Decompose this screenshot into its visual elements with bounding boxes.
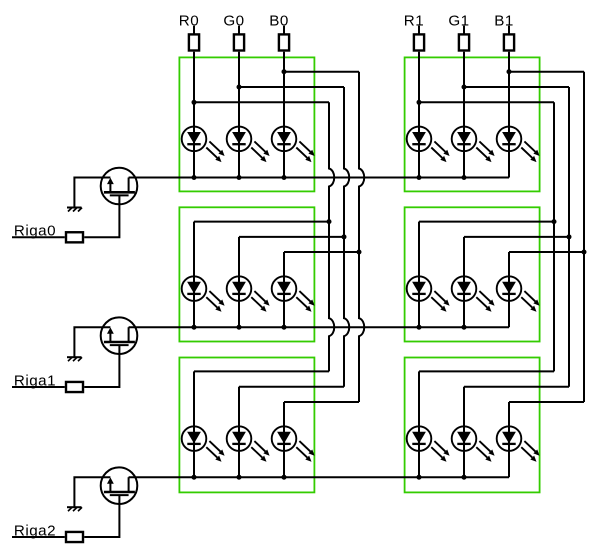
svg-text:B0: B0 — [269, 13, 289, 30]
LED B1 row0 — [497, 127, 540, 163]
wire B0 column middle block — [283, 252, 285, 327]
LED B1 row2 — [497, 426, 540, 461]
LED G0 row1 — [227, 276, 270, 311]
wire R0 junction to bus — [194, 101, 329, 103]
wire B0 column top block — [283, 52, 285, 178]
svg-text:G0: G0 — [223, 13, 244, 30]
wire R0 column bottom block — [193, 371, 195, 477]
node row1 G0 cathode — [237, 325, 242, 330]
LED block outline row2 right — [405, 358, 540, 493]
wire G1 junction to bus — [464, 86, 569, 88]
connector Riga2 — [66, 532, 83, 542]
svg-text:R0: R0 — [179, 13, 199, 30]
wire B0 feed middle block — [284, 251, 359, 253]
node G0 top junction — [237, 85, 242, 90]
wire G1 feed middle block — [464, 236, 569, 238]
transistor Q2 (row driver MOSFET) — [101, 317, 138, 354]
node B1 top junction — [507, 69, 512, 74]
wire Q3 source to ground — [74, 477, 110, 507]
wire G0 junction to bus — [239, 86, 344, 88]
connector R1 — [418, 26, 420, 35]
wire Q2 source to ground — [74, 327, 110, 357]
bus B0 vertical — [359, 72, 364, 402]
bus R0 vertical — [329, 102, 334, 371]
node R1 top junction — [417, 100, 422, 105]
wire B1 column bottom block — [508, 402, 510, 477]
node row2 G1 cathode — [462, 475, 467, 480]
node row2 R0 cathode — [192, 475, 197, 480]
connector Riga0 — [66, 232, 83, 242]
transistor Q3 (row driver MOSFET) — [101, 467, 138, 504]
node row0 B0 cathode — [282, 175, 287, 180]
wire B1 column top block — [508, 52, 510, 178]
wire G0 column middle block — [238, 237, 240, 327]
LED R1 row1 — [407, 276, 450, 311]
ground (row 0) — [67, 208, 82, 212]
node row1 R1 cathode — [417, 325, 422, 330]
wire B0 column bottom block — [283, 402, 285, 477]
svg-text:B1: B1 — [494, 13, 514, 30]
LED B0 row1 — [272, 276, 315, 311]
node R1 bus tap middle — [552, 219, 557, 224]
node row2 R1 cathode — [417, 475, 422, 480]
node B0 top junction — [282, 69, 287, 74]
node R0 top junction — [192, 100, 197, 105]
wire Q3 gate to Riga2 connector — [84, 495, 119, 537]
wire row2 horizontal (transistor drain to LED cathodes) — [129, 476, 509, 478]
wire G0 feed bottom block — [239, 386, 344, 388]
ground (row 1) — [67, 357, 82, 361]
wire Riga2 pin lead — [12, 536, 65, 538]
node row2 G0 cathode — [237, 475, 242, 480]
connector B0 — [283, 26, 285, 35]
LED block outline row1 right — [405, 207, 540, 341]
wire Riga1 pin lead — [12, 386, 65, 388]
svg-text:R1: R1 — [404, 13, 424, 30]
node G1 bus tap middle — [567, 234, 572, 239]
wire R1 column bottom block — [418, 371, 420, 477]
wire R1 junction to bus — [419, 101, 554, 103]
bus B1 vertical — [583, 72, 585, 402]
wire G1 column top block — [463, 52, 465, 178]
connector G1 — [463, 26, 465, 35]
wire G0 column top block — [238, 52, 240, 178]
node row1 G1 cathode — [462, 325, 467, 330]
wire R1 column middle block — [418, 222, 420, 328]
wire B1 feed bottom block — [509, 401, 584, 403]
node row0 R0 cathode — [192, 175, 197, 180]
wire B1 feed middle block — [509, 251, 584, 253]
wire R0 column middle block — [193, 222, 195, 328]
bus R1 vertical — [553, 102, 555, 371]
wire R0 feed middle block — [194, 221, 329, 223]
LED G1 row2 — [452, 426, 495, 461]
wire G1 column bottom block — [463, 387, 465, 478]
wire B1 column middle block — [508, 252, 510, 327]
wire R1 feed bottom block — [419, 370, 554, 372]
node B0 bus tap middle — [357, 250, 362, 255]
LED R0 row1 — [182, 276, 225, 311]
node G0 bus tap middle — [342, 234, 347, 239]
transistor Q1 (row driver MOSFET) — [101, 168, 138, 205]
wire row0 horizontal (transistor drain to LED cathodes) — [129, 177, 509, 179]
wire G0 column bottom block — [238, 387, 240, 478]
LED B1 row1 — [497, 276, 540, 311]
wire B0 junction to bus — [284, 71, 359, 73]
LED block outline row1 left — [179, 207, 314, 341]
wire B1 junction to bus — [509, 71, 584, 73]
wire G1 column middle block — [463, 237, 465, 327]
LED G0 row2 — [227, 426, 270, 461]
node row0 G0 cathode — [237, 175, 242, 180]
LED block outline row2 left — [179, 358, 314, 493]
wire B0 feed bottom block — [284, 401, 359, 403]
node G1 top junction — [462, 85, 467, 90]
LED G0 row0 — [227, 127, 270, 163]
connector R0 — [193, 26, 195, 35]
node row0 G1 cathode — [462, 175, 467, 180]
svg-text:G1: G1 — [448, 13, 469, 30]
wire Riga0 pin lead — [12, 236, 65, 238]
bus G1 vertical — [568, 87, 570, 387]
LED R0 row2 — [182, 426, 225, 461]
LED R1 row0 — [407, 127, 450, 163]
node row2 B0 cathode — [282, 475, 287, 480]
connector G0 — [238, 26, 240, 35]
LED B0 row2 — [272, 426, 315, 461]
wire G0 feed middle block — [239, 236, 344, 238]
LED R1 row2 — [407, 426, 450, 461]
node B1 bus tap middle — [582, 250, 587, 255]
LED G1 row1 — [452, 276, 495, 311]
wire row1 horizontal (transistor drain to LED cathodes) — [129, 326, 509, 328]
wire R1 feed middle block — [419, 221, 554, 223]
LED block outline row0 right — [405, 57, 540, 191]
wire G1 feed bottom block — [464, 386, 569, 388]
LED R0 row0 — [182, 127, 225, 163]
LED B0 row0 — [272, 127, 315, 163]
LED G1 row0 — [452, 127, 495, 163]
bus G0 vertical — [344, 87, 349, 387]
wire R1 column top block — [418, 52, 420, 178]
wire Q1 source to ground — [74, 178, 110, 208]
node row0 R1 cathode — [417, 175, 422, 180]
node R0 bus tap middle — [327, 219, 332, 224]
wire Q2 gate to Riga1 connector — [84, 345, 119, 387]
wire R0 column top block — [193, 52, 195, 178]
connector B1 — [508, 26, 510, 35]
ground (row 2) — [67, 507, 82, 511]
node row1 R0 cathode — [192, 325, 197, 330]
connector Riga1 — [66, 382, 83, 392]
node row1 B0 cathode — [282, 325, 287, 330]
wire R0 feed bottom block — [194, 370, 329, 372]
LED block outline row0 left — [179, 57, 314, 191]
wire Q1 gate to Riga0 connector — [84, 195, 119, 237]
